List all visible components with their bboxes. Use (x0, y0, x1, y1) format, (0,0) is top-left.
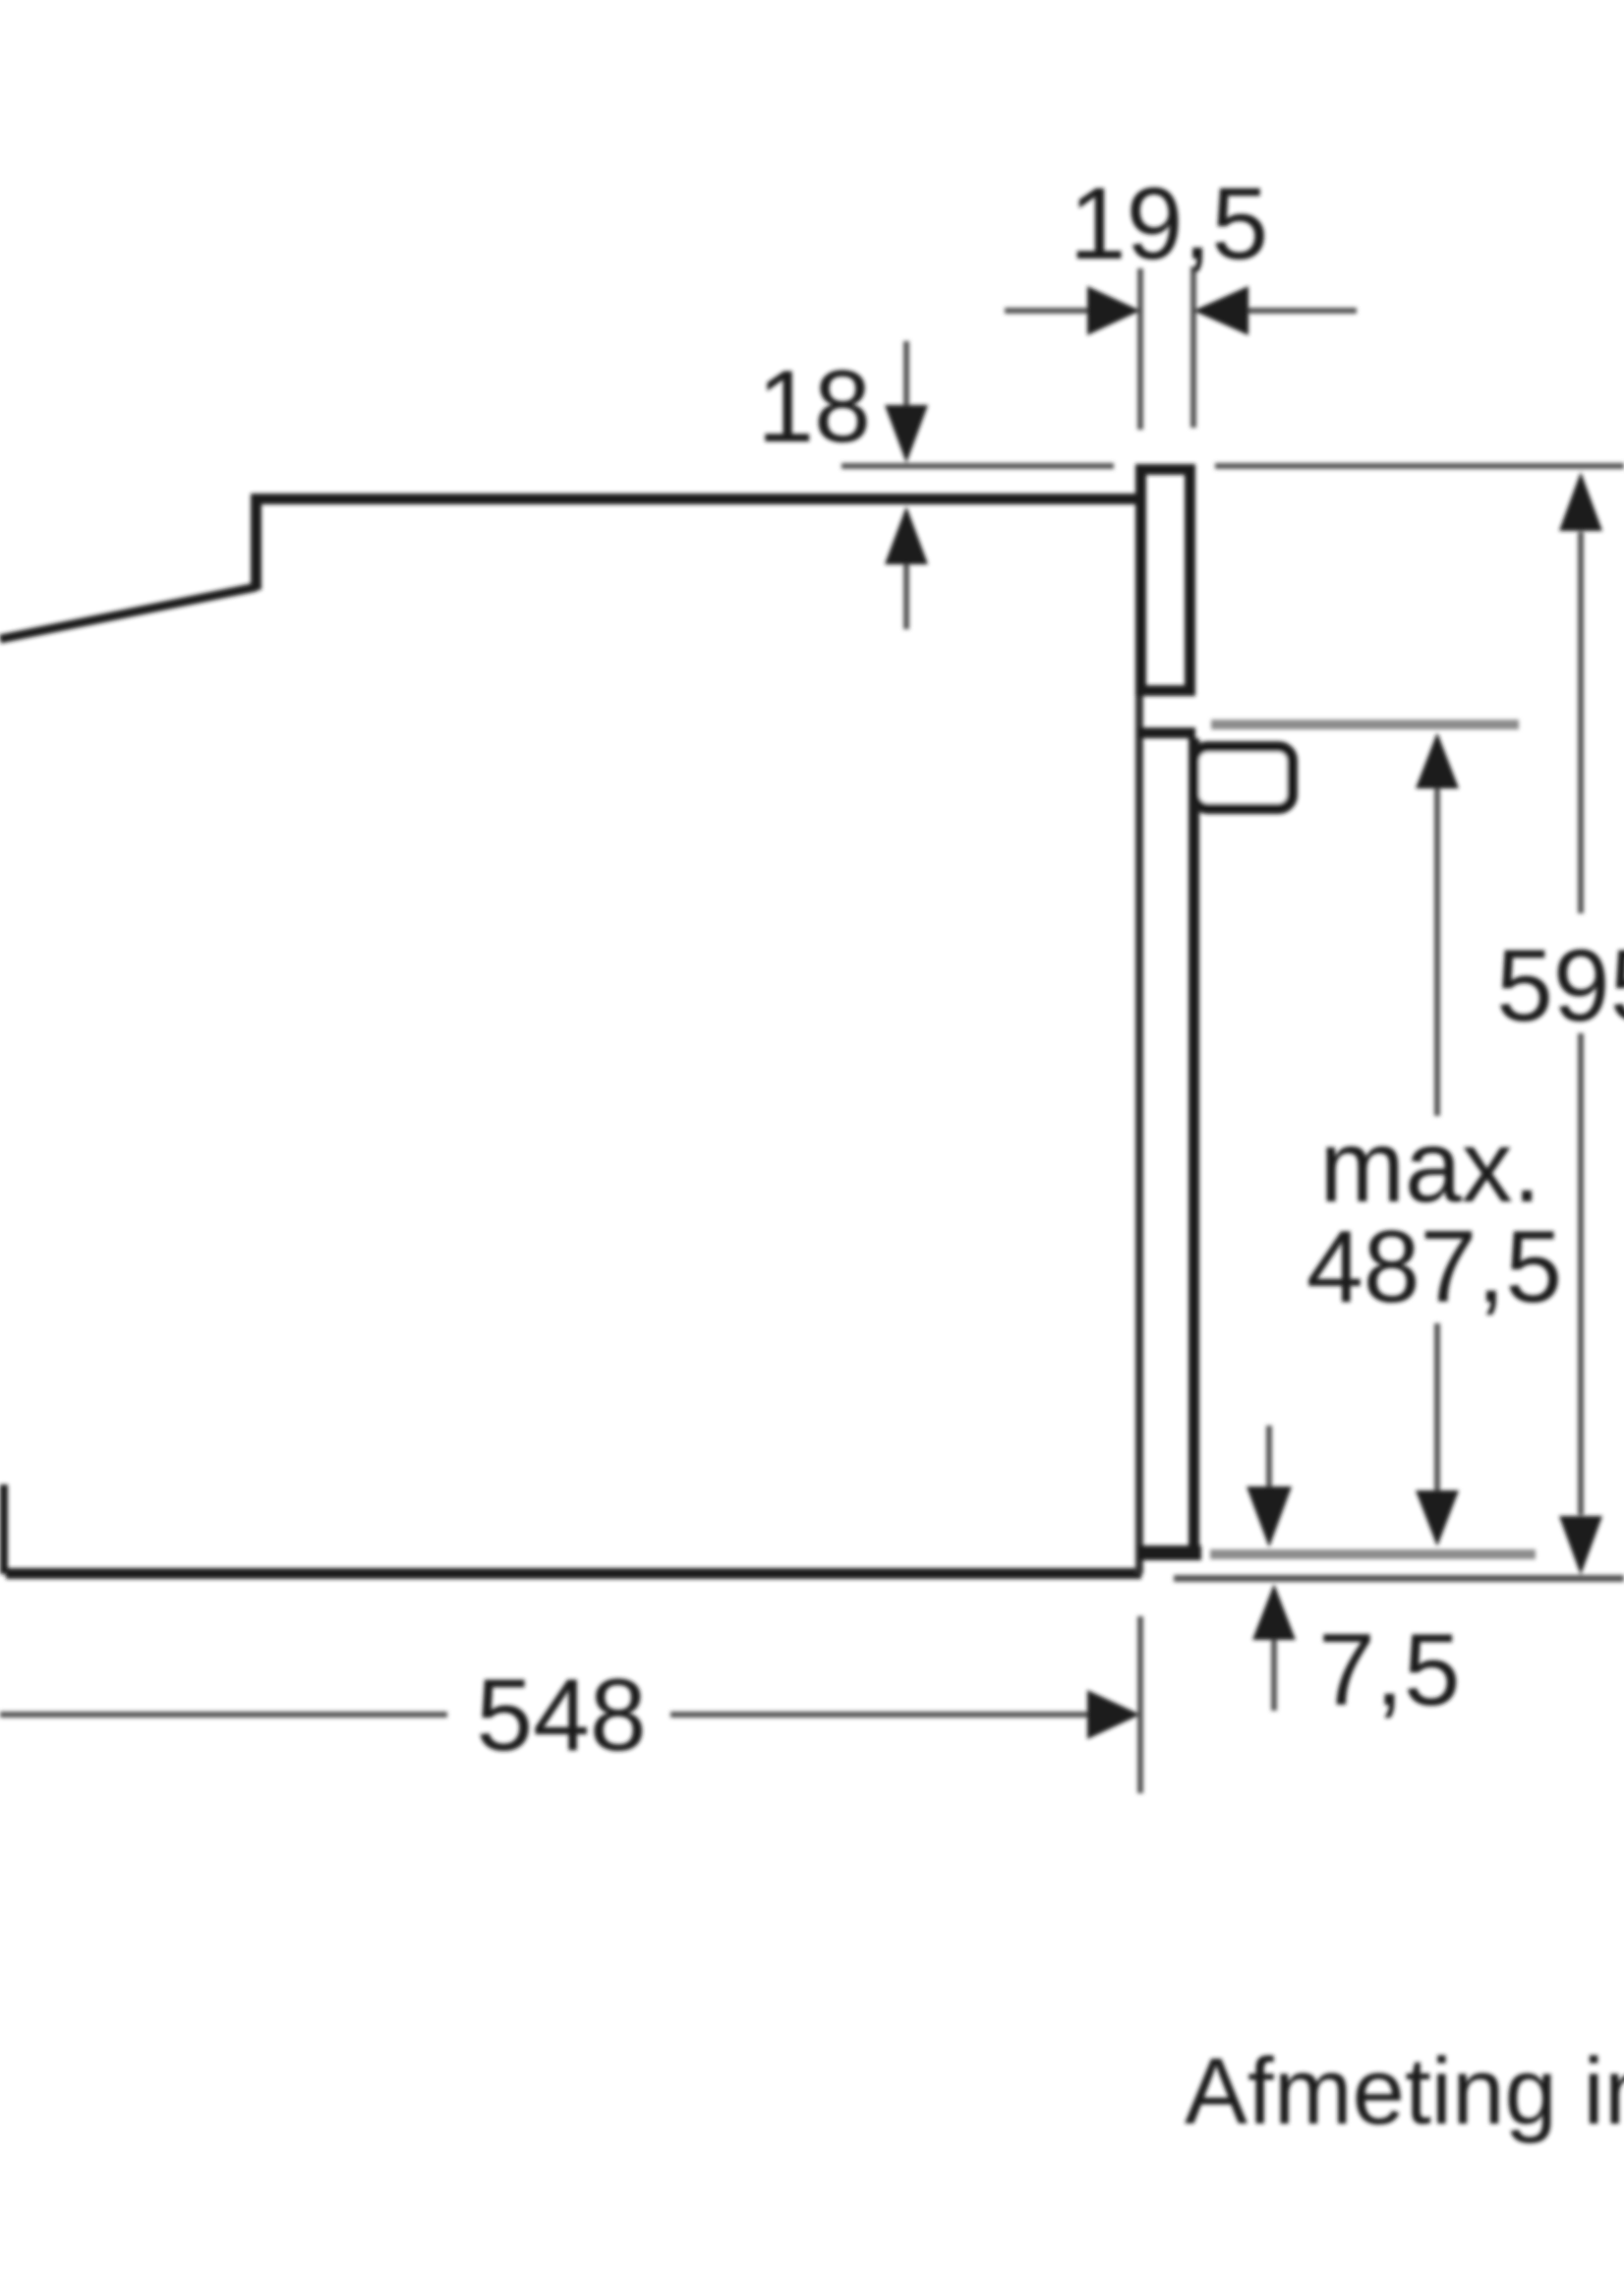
dim 548 line right segment (670, 1712, 1091, 1718)
furniture panel top edge (1135, 464, 1195, 475)
dim 19,5 left extension line (1137, 268, 1143, 430)
svg-text:max.: max. (1319, 1110, 1540, 1224)
furniture panel bottom edge (1135, 685, 1195, 696)
door bottom step (1138, 1545, 1201, 1560)
dim arrow to lower gray line (1266, 1426, 1272, 1487)
dim 19,5 left arrow shaft (1005, 308, 1089, 314)
svg-text:Afmeting in mm: Afmeting in mm (1185, 2039, 1624, 2144)
dim arrow to lower gray line head (1247, 1487, 1292, 1547)
dim 18 down arrowhead (885, 405, 928, 463)
dim max 487,5 upper line segment (1434, 787, 1440, 1116)
dim 19,5 right arrow shaft (1247, 308, 1357, 314)
dim 18 up arrowhead (885, 506, 928, 564)
oven top-left step vertical (251, 494, 261, 590)
dim 595 lower line segment (1578, 1033, 1584, 1515)
furniture panel right edge (1185, 464, 1195, 696)
dim 18 up arrow shaft (903, 564, 909, 629)
dim 595 bottom arrowhead (1559, 1516, 1602, 1575)
dim 7,5 up arrowhead (1252, 1584, 1296, 1640)
niche shelf gray line lower (1210, 1549, 1536, 1559)
oven back-bottom vertical (0, 1485, 8, 1574)
dim max 487,5 lower line segment (1434, 1323, 1440, 1490)
door front vertical (1189, 738, 1199, 1560)
svg-text:18: 18 (757, 350, 871, 464)
oven bottom line (6, 1568, 1141, 1579)
oven top line (251, 494, 1141, 504)
svg-text:548: 548 (476, 1659, 647, 1773)
oven back slant line (0, 587, 257, 639)
door handle (1194, 747, 1293, 809)
door top step (1138, 728, 1195, 738)
dim 548 extension line (1137, 1616, 1143, 1793)
dim 7,5 up arrow shaft (1271, 1640, 1277, 1711)
svg-text:487,5: 487,5 (1306, 1210, 1562, 1324)
niche top thin line right segment (1215, 463, 1624, 469)
dim 595 top arrowhead (1559, 472, 1602, 531)
dim 548 arrowhead (1087, 1690, 1140, 1739)
niche bottom baseline (1174, 1575, 1624, 1582)
svg-text:19,5: 19,5 (1070, 167, 1268, 281)
dim 19,5 right extension line (1190, 266, 1196, 428)
furniture panel left edge (1135, 464, 1146, 696)
svg-text:7,5: 7,5 (1318, 1613, 1461, 1727)
dim max 487,5 bottom arrowhead (1416, 1490, 1459, 1546)
svg-text:595: 595 (1496, 929, 1624, 1043)
dim 595 upper line segment (1578, 532, 1584, 913)
dim 548 line left segment (0, 1712, 447, 1718)
niche shelf gray line upper (1211, 720, 1519, 729)
dim 19,5 left arrowhead (1087, 286, 1140, 335)
dim 18 down arrow shaft (903, 341, 909, 405)
carcass front vertical line (1135, 696, 1143, 1574)
niche top thin line left segment (841, 463, 1114, 469)
dim max 487,5 top arrowhead (1416, 732, 1459, 788)
dim 19,5 right arrowhead (1193, 286, 1248, 335)
